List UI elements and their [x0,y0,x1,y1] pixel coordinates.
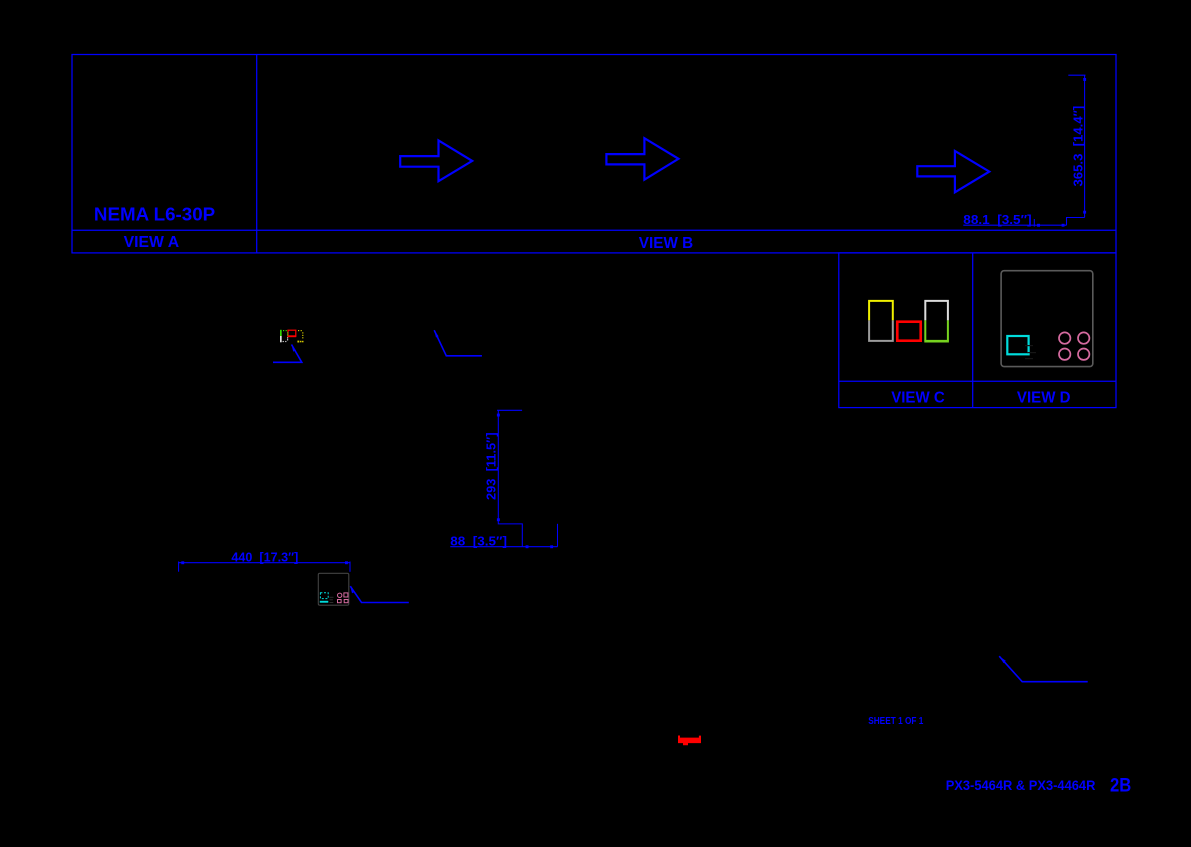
dimension 293 [11.5"] vertical [497,410,522,546]
white dashes [287,337,288,338]
red thick bottom bar [287,335,296,337]
divider between VIEW A and VIEW B cells [256,55,258,253]
leader A arrowhead [292,345,296,352]
svg-text:NEMA L6-30P: NEMA L6-30P [94,205,215,225]
VIEW D pink circle 3 [1059,349,1070,360]
leader B arrowhead [434,330,438,337]
svg-text:VIEW D: VIEW D [1017,389,1071,406]
VIEW D pink circle 4 [1078,349,1089,360]
VIEW D pink circle 1 [1059,332,1070,343]
VIEW C / VIEW D frame rectangle [839,253,1116,408]
green pin bar [280,330,282,336]
svg-text:VIEW B: VIEW B [639,235,693,252]
label band separator line (VIEW A / VIEW B band top) [72,229,1116,231]
main view frame outer rectangle [72,55,1116,253]
dimension 88.1 [3.5"] horizontal [963,219,1066,227]
VIEW D faint marks [1025,345,1033,346]
VIEW D cyan inlet rectangle [1007,336,1028,354]
mini pink squares [344,593,348,597]
red outline box [288,330,296,336]
leader D bottom right [999,656,1087,682]
flow arrow 2 in VIEW B [606,138,678,180]
mini faint text marks [330,597,334,598]
VIEW D inlet panel rounded rectangle [1001,271,1093,367]
svg-text:88 [3.5″]: 88 [3.5″] [450,533,507,548]
mini pink circle [338,593,342,597]
mini cyan solid bar [320,601,329,603]
mini detail box (miniature of VIEW D) [318,573,349,605]
svg-text:SHEET 1 OF 1: SHEET 1 OF 1 [868,715,923,727]
VIEW C/D label band top line [839,380,1116,382]
leader D arrowhead [999,656,1006,663]
svg-text:88.1 [3.5″]: 88.1 [3.5″] [963,212,1031,227]
yellow dashed box [298,330,299,331]
svg-text:VIEW A: VIEW A [124,234,180,251]
VIEW D pink circle 2 [1078,332,1089,343]
svg-text:440 [17.3″]: 440 [17.3″] [231,550,298,565]
flow arrow 1 in VIEW B [400,140,472,181]
VIEW C receptacle 1 (yellow top / gray bottom) [869,301,893,341]
svg-text:2B: 2B [1110,776,1131,797]
red cord clip mark [678,736,701,746]
inlet connector mini detail (green/white/red/yellow) [280,330,304,343]
svg-text:PX3-5464R & PX3-4464R: PX3-5464R & PX3-4464R [946,777,1096,793]
svg-text:365.3 [14.4″]: 365.3 [14.4″] [1071,106,1086,187]
dimension 88 [3.5"] horizontal [450,524,557,548]
leader C arrowhead [350,586,354,593]
mini cyan dashed rect [320,593,328,599]
VIEW C receptacle 2 (red) [897,322,920,341]
svg-text:VIEW C: VIEW C [891,389,945,406]
VIEW C receptacle 3 (white top / green bottom) [924,301,949,341]
dimension 440 [17.3"] horizontal [179,561,350,572]
green dashes [283,330,284,331]
flow arrow 3 in VIEW B [917,151,989,192]
divider between VIEW C and VIEW D cells [972,253,974,408]
leader C from mini detail box [350,586,409,602]
leader B [434,330,482,356]
leader A to inlet detail [273,345,302,363]
svg-text:293 [11.5″]: 293 [11.5″] [484,432,499,500]
white pin bar [280,336,282,342]
dimension 365.3 [14.4"] vertical [1067,75,1087,225]
